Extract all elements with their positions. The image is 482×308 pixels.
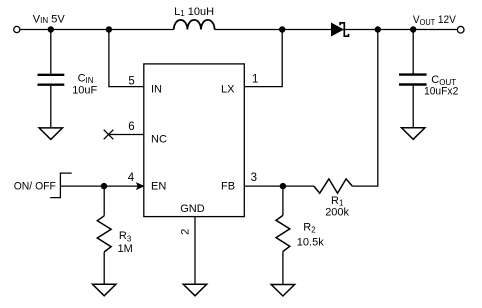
node: IN branch junction	[106, 26, 112, 32]
node: LX junction	[279, 26, 285, 32]
svg-text:IN: IN	[151, 84, 162, 96]
resistor R1	[314, 179, 352, 193]
wire: pin 1 LX branch	[244, 30, 282, 87]
ground (pin 2)	[183, 284, 206, 296]
svg-text:GND: GND	[180, 203, 205, 215]
svg-text:10uF: 10uF	[72, 85, 97, 97]
wire: Vin rail to inductor	[20, 29, 174, 31]
svg-text:2: 2	[180, 229, 192, 235]
svg-text:1: 1	[252, 74, 258, 86]
svg-text:6: 6	[128, 121, 134, 133]
svg-text:4: 4	[128, 172, 135, 184]
node: Vin / Cin junction	[48, 26, 54, 32]
wire: pin 5 IN branch	[109, 30, 144, 87]
svg-text:LX: LX	[221, 84, 235, 96]
svg-text:5: 5	[128, 75, 134, 87]
ground (Cin)	[39, 128, 62, 139]
node: EN / R3 junction	[101, 183, 107, 189]
ground (Cout)	[402, 128, 425, 140]
ground (R3)	[93, 284, 116, 296]
svg-text:3: 3	[251, 172, 257, 184]
svg-text:VIN 5V: VIN 5V	[33, 13, 66, 25]
svg-text:VOUT 12V: VOUT 12V	[413, 14, 457, 27]
wire: Cout bottom	[412, 86, 414, 128]
op-amp U1 (regulator IC body)	[144, 64, 245, 217]
svg-text:1M: 1M	[118, 243, 133, 255]
resistor R3	[103, 186, 105, 216]
resistor R2	[282, 186, 284, 215]
node: FB divider junction	[280, 183, 286, 189]
ground (R2)	[271, 285, 294, 297]
svg-text:FB: FB	[221, 181, 235, 193]
svg-text:200k: 200k	[325, 207, 349, 219]
svg-text:ON/ OFF: ON/ OFF	[14, 181, 56, 193]
wire: pin 6 NC	[109, 134, 144, 136]
svg-text:10uFx2: 10uFx2	[424, 86, 458, 98]
capacitor CIN	[38, 75, 65, 85]
wire: pin 3 FB to divider	[244, 185, 314, 187]
wire: Cout top	[412, 30, 414, 74]
wire: feedback riser	[352, 30, 378, 187]
wire: Cin top	[50, 30, 52, 74]
svg-text:10.5k: 10.5k	[297, 236, 324, 248]
inductor L1	[174, 20, 215, 30]
svg-text:NC: NC	[151, 134, 167, 146]
ON/OFF step symbol	[50, 173, 71, 198]
svg-text:L1 10uH: L1 10uH	[174, 6, 214, 18]
output terminal	[457, 26, 464, 33]
wire: diode to Vout	[344, 29, 457, 31]
wire: inductor to diode	[215, 29, 332, 31]
capacitor COUT	[399, 75, 427, 85]
wire: pin 2 GND	[194, 217, 196, 284]
NC no-connect X	[104, 130, 114, 140]
node: Vout / Cout junction	[410, 26, 416, 32]
wire: pin 4 EN	[60, 185, 143, 187]
diode D1 (Schottky)	[332, 23, 344, 35]
input terminal	[14, 26, 20, 32]
arrow into EN	[137, 183, 144, 190]
wire: Cin bottom	[50, 86, 52, 128]
svg-text:EN: EN	[151, 181, 166, 193]
node: feedback tap junction	[375, 26, 381, 32]
